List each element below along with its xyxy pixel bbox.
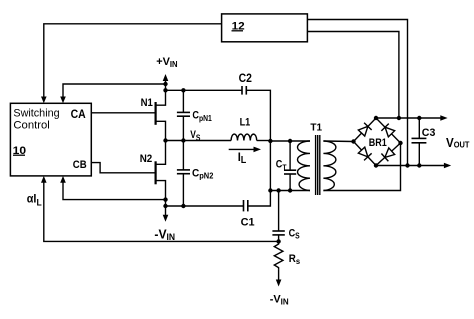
label IL [238,150,247,166]
label CT [276,159,287,173]
transformer T1 primary winding [298,141,311,190]
svg-text:C1: C1 [241,217,255,229]
svg-text:CB: CB [73,159,87,171]
+VIN arrow [163,74,169,90]
node at +VIN tap [163,82,167,86]
diode BR1 bottom-left [358,147,372,161]
-VIN arrow at N2 source [163,206,169,222]
-VIN arrow below Rs [276,270,282,287]
wire C2 right to main vertical [246,90,270,141]
node sense at N2 source [163,197,167,201]
svg-text:Control: Control [13,120,49,132]
node CpN2 bottom [181,204,185,208]
bridge rectifier BR1 [354,118,401,166]
svg-text:T1: T1 [310,123,322,134]
diode BR1 top-left [358,123,372,137]
wire CA to N1 gate [91,112,155,114]
node bridge bottom corner [374,163,378,167]
svg-text:BR1: BR1 [369,137,387,149]
svg-text:N2: N2 [140,153,153,165]
label N2 [140,153,153,165]
svg-text:N1: N1 [141,97,153,109]
transformer T1 core [316,135,320,195]
wire alpha IL feedback line [41,176,279,242]
label CB [73,159,87,171]
label VS [190,129,200,142]
svg-text:CT: CT [276,159,287,173]
node C3 top [417,116,421,120]
label T1 [310,123,322,134]
wire block12 lower output [307,32,399,119]
svg-text:CpN1: CpN1 [192,110,212,123]
node C3 bottom [417,163,421,167]
svg-text:-VIN: -VIN [154,227,175,242]
Switching Control block 10 [10,103,91,176]
capacitor CpN2 [177,141,190,207]
wire primary bottom stub [270,190,310,192]
wire block12 left to switching control top [41,24,222,104]
label +VIN [156,56,178,69]
wire N2 source sense to switching control [60,176,165,200]
svg-text:VOUT: VOUT [446,136,470,150]
wire top rail to C2 [166,89,243,91]
feedback block 12 [222,14,308,42]
label L1 [240,117,251,129]
label Rs [289,253,301,266]
node CT top [288,139,292,143]
wire C1 right to main vertical [248,191,271,207]
wire block12 upper output [307,20,407,166]
current IL arrow [229,147,261,153]
wire secondary bottom to bridge right [323,143,400,191]
node CS Rs junction [276,239,280,243]
wire main vertical VS to primary bottom node [269,141,271,191]
node CS tap [276,188,280,192]
svg-text:L1: L1 [240,117,251,129]
label -VIN bottom [270,293,289,306]
resistor Rs [274,241,283,269]
label C2 [239,72,252,85]
transistor N2 [156,141,166,207]
reference 10 [13,145,26,156]
label -VIN near N2 [154,227,175,242]
svg-text:C2: C2 [239,72,252,85]
capacitor C3 [412,118,427,166]
wire primary top stub [270,140,310,142]
label C3 [422,127,436,139]
node bridge right corner [398,141,402,145]
transistor N1 [156,90,166,140]
svg-text:C3: C3 [422,127,436,139]
label alpha IL [27,193,42,208]
label CpN2 [192,167,214,181]
capacitor CT [284,141,296,191]
svg-text:CpN2: CpN2 [192,167,214,181]
node main vertical at primary bottom [268,188,272,192]
node block12 lower to Vout plus [397,116,401,120]
svg-text:CA: CA [71,108,86,121]
node block12 upper to Vout minus [405,163,409,167]
label BR1 [369,137,387,149]
label CS [289,228,300,241]
node bridge top corner [374,116,378,120]
svg-text:IL: IL [238,150,247,166]
svg-text:-VIN: -VIN [270,293,289,306]
label VOUT [446,136,470,150]
transformer T1 secondary winding [323,141,336,190]
capacitor CS [272,191,284,242]
label C1 [241,217,255,229]
label CA [71,108,86,121]
wire +VIN node to switching control top [60,84,165,103]
node CT bottom [288,188,292,192]
capacitor C2 [242,86,246,95]
capacitor CpN1 [177,90,190,140]
label N1 [141,97,153,109]
capacitor C1 [244,200,248,211]
inductor L1 [231,134,257,140]
label Switching Control [13,108,59,132]
node at top rail N1 drain [163,88,167,92]
node main vertical at VS [268,139,272,143]
wire secondary top to bridge left [323,140,353,143]
svg-text:CS: CS [289,228,300,241]
node N2 source lower [163,204,167,208]
node CpN1 top [181,88,185,92]
node bridge left corner [351,139,355,143]
wire CB to N2 gate [91,163,155,173]
wire Vout plus line [376,115,448,121]
label CpN1 [192,110,212,123]
svg-text:Rs: Rs [289,253,301,266]
wire VS rail to L1 [166,140,232,142]
diode BR1 top-right [381,124,395,138]
wire N2 source to C1 [166,205,244,207]
svg-text:+VIN: +VIN [156,56,178,69]
reference 12 [232,21,245,33]
wire L1 to main vertical [257,140,271,142]
diode BR1 bottom-right [381,147,395,161]
node VS at CpN junction [181,138,185,142]
wire Vout minus line [376,163,451,169]
svg-text:αIL: αIL [27,193,42,208]
node VS at N1 source [163,138,167,142]
svg-text:Switching: Switching [13,108,59,120]
